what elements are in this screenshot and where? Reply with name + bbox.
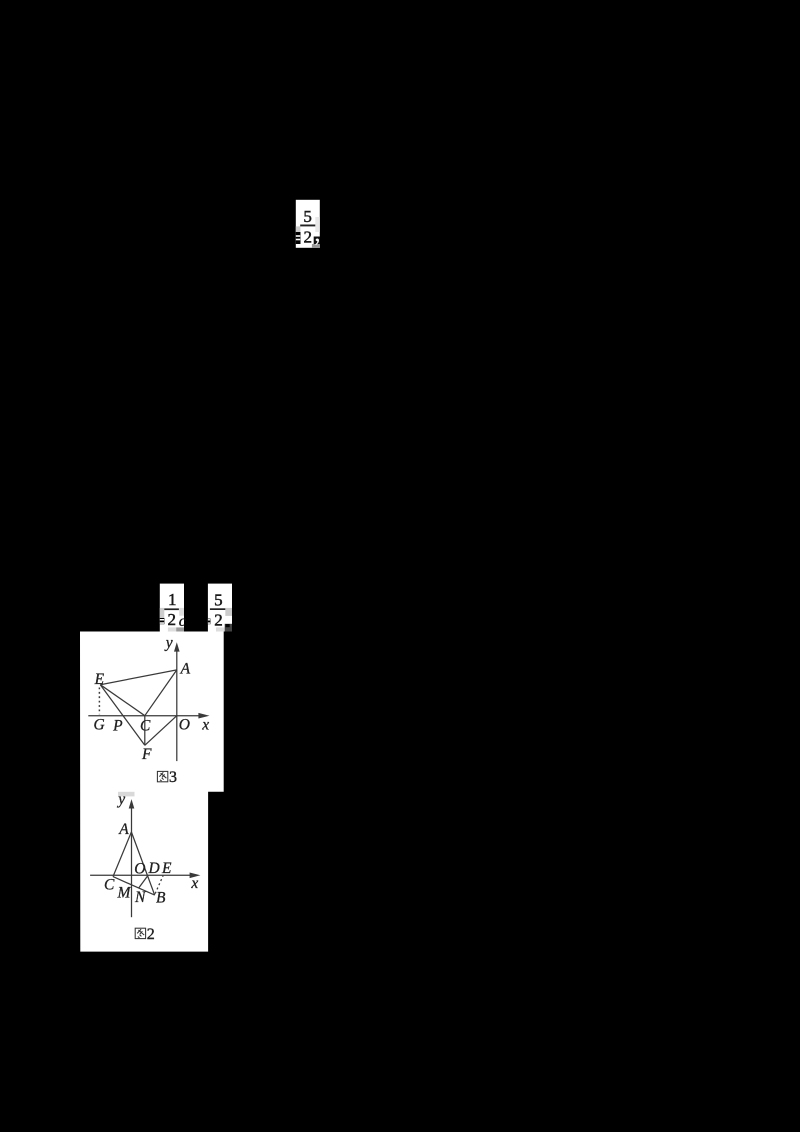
svg-text:G: G [94,717,105,734]
svg-text:5: 5 [214,590,223,609]
svg-text:E: E [94,671,105,688]
图3 line EC [100,685,145,716]
图2 line AC [113,832,131,877]
F1 fraction bar [164,608,179,610]
svg-text:x: x [201,717,209,734]
图2 caption glyph 图 [135,928,145,938]
svg-text:3: 3 [169,769,177,786]
图2 y-axis [131,807,133,918]
svg-text:E: E [161,860,172,877]
F0 equals sign (white on black, left of image) [296,232,301,244]
svg-text:M: M [117,884,132,901]
图2 dashed BE [155,876,163,894]
gray artifact smudge above 图2 y label [118,792,135,797]
svg-text:c: c [179,613,186,630]
svg-text:1: 1 [168,590,177,609]
图2 line CB [113,877,155,896]
图3 dotted EG [98,688,100,715]
formula image F2: fraction 5/2 [208,584,232,632]
formula image F1: fraction 1/2 [160,584,184,632]
svg-text:P: P [112,718,123,735]
图2 line ND [139,875,148,888]
svg-text:F: F [141,746,152,763]
svg-text:D: D [148,860,160,877]
图3 x-axis [88,715,201,717]
svg-text:A: A [180,661,191,678]
图3 labels [94,635,210,764]
F0 comma (white on black, right of image) [315,239,319,246]
图3 y-axis [176,650,178,762]
F1 equals sign (white on black, left of image) [160,618,165,624]
svg-text:x: x [190,875,198,892]
svg-text:2: 2 [147,926,155,943]
图2 x-axis [90,874,192,876]
figure panel (white area holding 图3 and 图2) [80,632,224,952]
svg-text:C: C [104,877,115,894]
svg-text:C: C [140,718,151,735]
F2 equals sign sliver (white on black, left of image) [208,619,211,625]
svg-text:2: 2 [167,610,176,629]
图3 caption glyph 图 [157,771,167,781]
图3 y-axis arrowhead [174,642,180,651]
F2 fraction bar [210,608,225,610]
svg-text:O: O [179,717,190,734]
svg-text:N: N [134,889,147,906]
F0 fraction bar [300,225,315,227]
formula image F0: fraction 5/2 (top of page) [296,200,320,248]
svg-text:y: y [116,791,125,808]
svg-text:y: y [164,635,173,652]
图2 x-axis arrowhead [190,873,201,879]
图3 x-axis arrowhead [198,713,209,719]
图3 line CF [144,716,146,746]
svg-text:5: 5 [303,207,312,226]
图3 line EA [100,670,177,685]
图3 line AC [145,670,177,716]
图2 line AB [131,832,154,895]
svg-text:2: 2 [304,227,313,246]
svg-text:A: A [118,821,129,838]
图3 line EF [100,685,145,746]
svg-text:2: 2 [214,610,223,629]
图2 y-axis arrowhead [129,799,135,808]
svg-text:O: O [134,860,145,877]
图3 line FO [145,716,177,746]
svg-text:B: B [156,890,166,907]
图2 labels [104,791,198,906]
